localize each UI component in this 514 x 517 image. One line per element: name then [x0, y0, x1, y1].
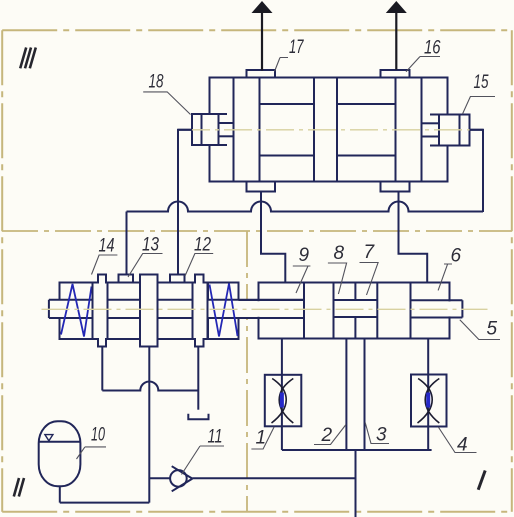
piston rod (cylinder)	[260, 104, 396, 156]
vent arrow right	[386, 1, 407, 70]
wire land12 drain	[197, 347, 199, 410]
svg-text:5: 5	[487, 319, 498, 340]
zone label III	[20, 48, 36, 69]
check valve 11	[149, 466, 355, 491]
label 15	[463, 72, 496, 114]
centerline cylinder axis	[182, 129, 479, 131]
label 10	[77, 425, 107, 460]
label 3	[365, 423, 389, 446]
svg-text:12: 12	[194, 235, 211, 256]
svg-text:13: 13	[142, 235, 159, 256]
wire cylinder left bottom port	[261, 191, 285, 283]
svg-text:10: 10	[91, 425, 105, 446]
left valve spring box R	[208, 283, 239, 340]
piston 6 edge	[410, 283, 412, 339]
svg-text:11: 11	[208, 427, 223, 448]
wire from item18 to valve	[178, 130, 192, 275]
label 2	[314, 425, 346, 447]
piston P1	[234, 78, 260, 182]
label 17	[275, 37, 305, 72]
throttle 1	[265, 375, 302, 427]
piston P3	[396, 78, 422, 182]
svg-text:7: 7	[364, 242, 376, 263]
svg-text:15: 15	[474, 72, 489, 93]
svg-text:2: 2	[321, 425, 333, 446]
cylinder body	[210, 78, 448, 182]
rod mid right valve	[334, 300, 378, 317]
cylinder bottom port right	[381, 182, 410, 192]
wire item15 stub redraw	[470, 129, 484, 131]
internal wall 8	[354, 283, 356, 339]
port boss B	[170, 275, 185, 283]
right valve body	[259, 283, 450, 339]
label 6	[438, 246, 461, 291]
wire pump line down	[355, 450, 357, 517]
zone partition horizontal	[2, 230, 512, 232]
item18 plunger stub	[219, 123, 234, 136]
cylinder bottom port left	[247, 182, 276, 192]
label 14	[92, 236, 118, 275]
zone partition vertical	[246, 231, 248, 512]
rod into right valve (erase crossing)	[239, 300, 305, 318]
piston 7	[377, 283, 410, 339]
spring left	[61, 284, 92, 337]
output rod 5	[411, 300, 463, 317]
accumulator 10	[39, 421, 81, 486]
adjuster item18 box	[192, 114, 227, 145]
adjuster item15 box	[430, 115, 470, 146]
manifold with hop	[102, 382, 198, 391]
label 7	[360, 242, 379, 295]
svg-text:9: 9	[299, 245, 310, 266]
label 1	[251, 427, 274, 449]
cylinder top port left	[247, 70, 276, 78]
port boss A	[119, 275, 134, 283]
svg-text:17: 17	[289, 37, 304, 58]
left valve body	[60, 283, 239, 340]
wire land13 to accumulator	[60, 347, 150, 503]
centerline valve axis	[42, 308, 488, 310]
wire from item15	[470, 130, 484, 212]
node link-line y212 with hops	[127, 202, 484, 212]
left valve spring box L	[60, 283, 93, 340]
label 9	[293, 245, 311, 293]
throttle 4	[411, 375, 447, 427]
piston 9	[304, 283, 334, 339]
svg-text:18: 18	[149, 72, 164, 93]
wire valve to throttle4	[427, 339, 429, 451]
item15 plunger stub	[422, 123, 440, 136]
label 18	[143, 72, 190, 115]
wire item18 stub redraw	[178, 129, 192, 131]
wire valve mid pipe 2	[345, 339, 347, 451]
svg-text:8: 8	[334, 243, 345, 264]
zone label II	[14, 478, 24, 497]
zone label I	[478, 471, 485, 490]
label 13	[128, 235, 163, 278]
cylinder top port right	[381, 70, 410, 78]
label 4	[438, 427, 476, 456]
svg-text:3: 3	[376, 425, 387, 446]
land 13	[140, 275, 158, 347]
wire boss1 riser	[126, 212, 128, 275]
wire cylinder right bottom port	[399, 191, 428, 283]
wire land14 drain	[101, 347, 103, 391]
svg-text:16: 16	[424, 38, 441, 59]
spool rod (valves)	[49, 300, 304, 318]
svg-text:14: 14	[99, 236, 115, 257]
land 12	[193, 275, 208, 347]
svg-text:6: 6	[451, 246, 462, 267]
label 12	[185, 235, 213, 277]
wire valve to throttle1	[281, 339, 283, 451]
vent arrow left	[252, 1, 273, 71]
label 16	[406, 38, 441, 72]
label 8	[328, 243, 347, 294]
tank symbol	[188, 414, 208, 420]
piston P2	[314, 78, 337, 182]
label 5	[460, 319, 500, 340]
bus line	[282, 449, 432, 451]
label 11	[182, 427, 225, 475]
spring right	[210, 284, 238, 337]
land 14	[93, 275, 108, 347]
wire valve mid pipe 3	[364, 339, 366, 451]
